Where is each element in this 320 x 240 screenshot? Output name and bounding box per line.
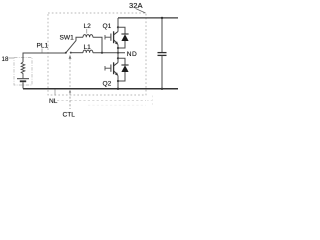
CTL arrowhead echo below rail — [69, 90, 71, 93]
leader tick L2 to coil — [86, 29, 88, 34]
junction dot L1/L2 — [101, 52, 103, 54]
transistor Q1 emitter wire — [117, 45, 119, 53]
battery cell long plate — [17, 78, 29, 80]
transistor Q2 main bar — [113, 62, 115, 74]
junction dot Q2 collector/diode — [117, 57, 119, 59]
transistor Q1 gate terminal tick — [104, 35, 106, 40]
leader tick PL1 to wire — [41, 49, 43, 53]
transistor Q2 gate lead — [105, 67, 110, 69]
transistor Q2 collector wire — [117, 53, 119, 63]
svg-text:Q2: Q2 — [103, 81, 112, 88]
capacitor lower wire — [161, 56, 163, 89]
transistor Q2 gate terminal tick — [104, 66, 106, 71]
capacitor top plate — [158, 52, 167, 54]
diode D1 triangle — [121, 34, 128, 41]
battery cell short plate — [20, 80, 26, 82]
svg-text:18: 18 — [2, 56, 9, 63]
top rail wire PL2 — [118, 17, 178, 19]
wire switch to L1 — [71, 52, 83, 54]
switch SW1 upper contact stub — [76, 37, 83, 41]
transistor Q1 collector diagonal — [114, 32, 118, 35]
transistor Q1 collector wire — [117, 18, 119, 32]
wire L1 to node ND — [93, 52, 125, 54]
capacitor bottom plate — [158, 54, 167, 56]
wire L2 to node — [93, 37, 102, 53]
diode D2 triangle — [121, 65, 128, 72]
transistor Q1 emitter diagonal with arrow — [114, 40, 118, 44]
junction dot Q2 emitter/diode — [117, 80, 119, 82]
transistor Q2 emitter wire — [117, 76, 119, 89]
junction dot top rail / capacitor — [161, 17, 163, 19]
junction dot bottom rail / capacitor — [161, 88, 163, 90]
inductor L2 — [83, 35, 93, 38]
junction dot bottom rail / Q2 — [117, 88, 119, 90]
svg-text:PL1: PL1 — [37, 43, 49, 50]
svg-text:Q1: Q1 — [103, 23, 112, 30]
switch SW1 pivot dot — [65, 52, 67, 54]
svg-text:CTL: CTL — [63, 112, 76, 119]
ghost dashed line 2 below box — [88, 104, 146, 106]
CTL dashed control line lower segment — [69, 93, 71, 109]
dashed box 32A (converter boundary) — [48, 13, 146, 95]
wire Q1 diode bottom branch — [118, 41, 125, 48]
leader line from 32A to box corner — [136, 9, 146, 14]
svg-text:L2: L2 — [84, 23, 92, 30]
leader line from 18 to battery box — [9, 57, 14, 59]
battery box 18 (dash-dot outline) — [14, 58, 32, 86]
ghost dashed corner right of box — [151, 96, 153, 106]
wire battery top to PL1 line — [23, 53, 66, 62]
wire battery negative to NL rail — [22, 82, 24, 88]
transistor Q2 emitter diagonal with arrow — [114, 71, 118, 75]
transistor Q2 gate bar — [110, 65, 112, 72]
switch SW1 lower contact dot — [70, 52, 72, 54]
diode D2 cathode bar — [121, 64, 128, 66]
capacitor upper wire — [161, 18, 163, 52]
CTL arrowhead at switch — [69, 55, 72, 59]
transistor Q2 collector diagonal — [114, 63, 118, 66]
resistor (battery internal resistance) — [21, 62, 25, 78]
transistor Q1 main bar — [113, 31, 115, 43]
wire Q1 diode top branch — [118, 27, 125, 34]
bottom rail wire NL — [23, 88, 178, 90]
svg-text:ND: ND — [127, 51, 137, 58]
wire Q2 diode top branch — [118, 58, 125, 65]
junction dot Q1 collector/diode — [117, 26, 119, 28]
svg-text:SW1: SW1 — [60, 35, 75, 42]
svg-text:NL: NL — [49, 98, 58, 105]
leader tick NL to rail — [54, 90, 56, 96]
junction dot node ND — [117, 52, 119, 54]
transistor Q1 gate bar — [110, 34, 112, 41]
transistor Q1 gate lead — [105, 36, 110, 38]
junction dot Q1 emitter/diode — [117, 47, 119, 49]
diode D1 cathode bar — [121, 33, 128, 35]
switch SW1 blade — [66, 41, 77, 54]
inductor L1 — [83, 50, 93, 53]
CTL dashed control line upper segment — [69, 59, 71, 89]
ghost dashed line 1 below box — [57, 99, 146, 101]
wire Q2 diode bottom branch — [118, 72, 125, 81]
